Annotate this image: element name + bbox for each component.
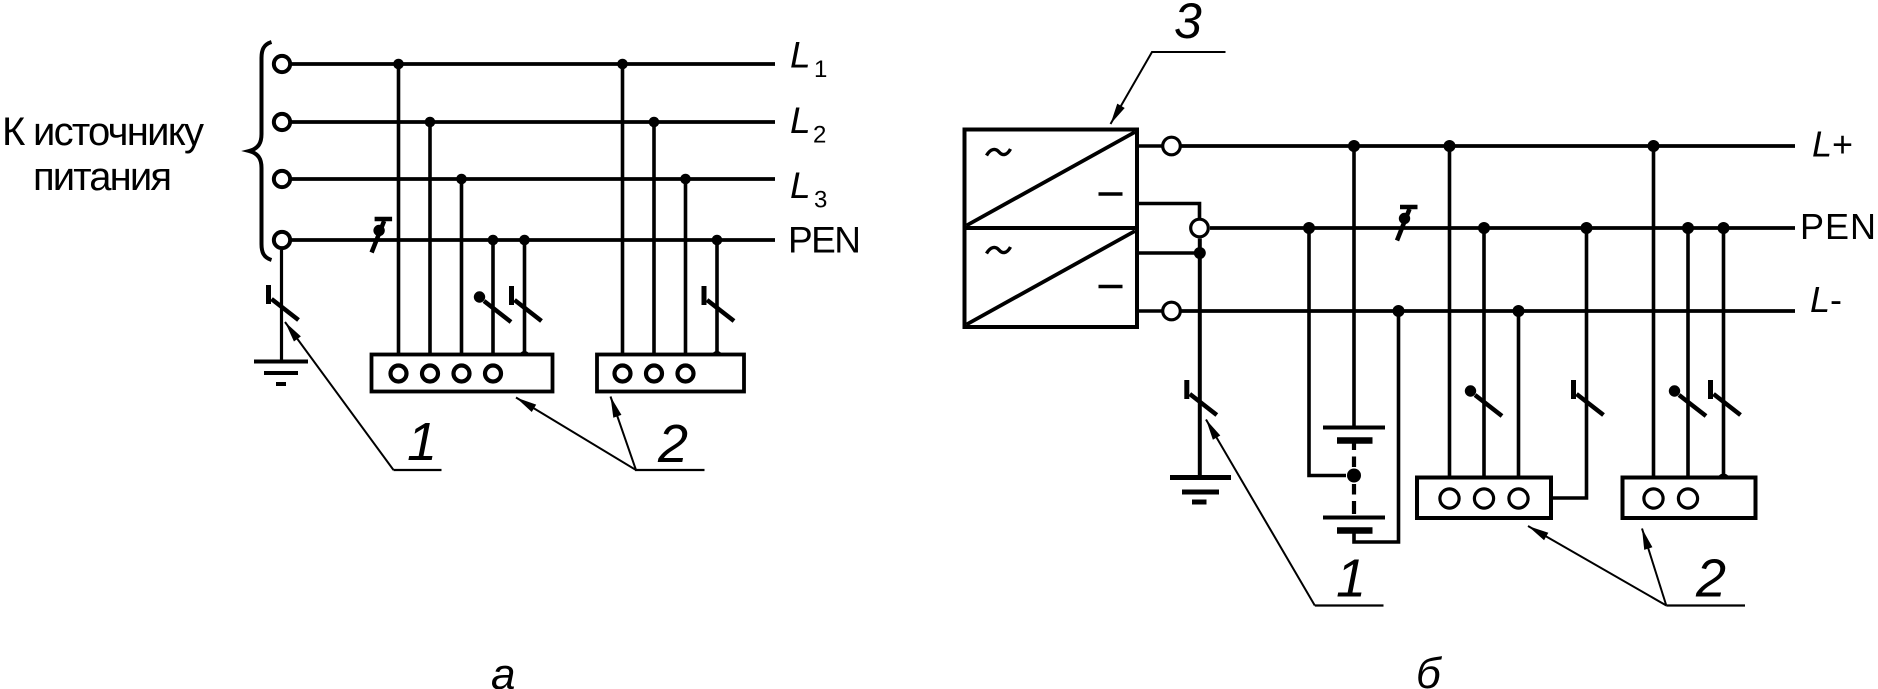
disconnect mark on PEN line (system a)	[372, 219, 393, 253]
svg-text:питания: питания	[33, 155, 172, 199]
callout 1 (system b): earthing electrode	[1206, 420, 1384, 609]
svg-text:PEN: PEN	[1800, 206, 1876, 247]
busbar box 2 (second consumer terminal strip, system a)	[597, 355, 744, 392]
svg-text:L-: L-	[1810, 279, 1842, 320]
label L2	[790, 100, 826, 149]
svg-text:1: 1	[814, 56, 827, 83]
svg-text:PEN: PEN	[788, 220, 861, 261]
svg-text:а: а	[491, 650, 515, 689]
wire: L- drop to box 3 circle 3, junction	[1513, 305, 1525, 489]
rectifier 2 diagonal	[967, 231, 1136, 325]
svg-text:1: 1	[1336, 549, 1366, 609]
wire: converter output to L- terminal	[1139, 302, 1180, 320]
disconnect mark on PEN line (system b)	[1397, 207, 1418, 241]
svg-text:3: 3	[1174, 0, 1202, 49]
ground (earth electrode 1, system b)	[1170, 478, 1231, 503]
net L1 (phase line 1, system a)	[274, 56, 775, 72]
busbar box 2 (first consumer terminal strip, system b)	[1417, 478, 1551, 519]
battery GB (storage battery, two cells with dashed middle)	[1323, 312, 1399, 542]
wire: converter midpoint elbow to PEN terminal	[1139, 204, 1208, 237]
label PEN (system a)	[788, 220, 861, 261]
callout 1 (system a): earthing electrode	[285, 322, 442, 472]
text: К источнику питания	[2, 110, 204, 199]
svg-text:3: 3	[814, 186, 827, 213]
svg-text:2: 2	[1695, 549, 1726, 609]
wire: converter output to L+ terminal	[1139, 137, 1180, 155]
rectifier 1 diagonal	[967, 132, 1136, 226]
svg-text:L: L	[790, 100, 811, 141]
wire: PEN drop to battery midpoint, junction at PEN	[1303, 222, 1346, 476]
wire: PEN drop to box 4 circle 2, junction, dot-slash disconnect mark	[1669, 222, 1706, 489]
rectifier 1 AC symbol ~	[987, 149, 1011, 156]
wire: PEN terminal to earth electrode 1, with bar-slash disconnect mark	[269, 250, 299, 362]
junction: battery negative to L-	[1393, 305, 1405, 317]
callout 2 (system a): terminal strips	[516, 397, 705, 475]
callout 2 (system b): terminal strips	[1528, 526, 1745, 609]
svg-text:L+: L+	[1812, 124, 1853, 165]
rectifier 2 AC symbol ~	[987, 247, 1011, 254]
wire: PEN drop to box 3 circle 2, junction, dot-slash disconnect mark	[1465, 222, 1502, 489]
net L2 (phase line 2, system a)	[274, 114, 775, 130]
svg-text:б: б	[1416, 649, 1443, 689]
svg-text:1: 1	[407, 412, 437, 472]
wire: PEN drop to first box (working neutral), with junction and dot-slash disconnect mark	[474, 235, 511, 365]
rectifier 1 DC symbol -	[1099, 192, 1123, 196]
label L1	[790, 35, 827, 84]
svg-text:К источнику: К источнику	[2, 110, 204, 154]
wire: converter lower midpoint to junction	[1139, 247, 1206, 259]
wire: L+ drop to battery positive, junction at L+	[1348, 140, 1360, 428]
wire: PEN drop to first box PE terminal, junctions both ends, bar-slash disconnect mark	[512, 235, 542, 362]
wire: L2 drop to second box, with junction	[649, 117, 660, 365]
wire: L1 drop to second box, with junction	[617, 59, 628, 365]
svg-text:2: 2	[657, 414, 688, 474]
wire: L3 drop to first box, with junction	[456, 174, 467, 365]
wire: L+ drop to box 3 circle 1, junction at L+	[1444, 140, 1456, 489]
wire: L2 drop to first box, with junction	[425, 117, 436, 365]
busbar box 2 (first consumer terminal strip, system a)	[372, 355, 553, 392]
converter unit 3 (two AC/DC rectifiers): outer box	[965, 130, 1138, 328]
wire: PEN drop to second box, junctions both ends, bar-slash disconnect mark	[704, 235, 734, 362]
wire: PEN drop to box 4 top edge (PE), junctions both ends, bar-slash disconnect mark	[1711, 222, 1741, 486]
callout 3: converter	[1111, 0, 1226, 124]
net PEN (system b)	[1210, 226, 1795, 230]
svg-text:L: L	[790, 35, 811, 76]
svg-text:2: 2	[813, 121, 826, 148]
svg-text:L: L	[790, 165, 811, 206]
wire: L+ drop to box 4 circle 1, junction	[1648, 140, 1660, 489]
wire: PEN drop to box 3 right side (PE), junction, bar-slash disconnect mark	[1552, 222, 1604, 498]
busbar box 2 (second consumer terminal strip, system b)	[1623, 478, 1756, 519]
wire: L3 drop to second box, with junction	[680, 174, 691, 365]
wire: L1 drop to busbar 2 (first box), with junction	[393, 59, 404, 365]
net L- (negative pole line)	[1182, 309, 1796, 313]
net L+ (positive pole line)	[1182, 144, 1796, 148]
rectifier 2 DC symbol -	[1099, 285, 1123, 289]
brace: to power source terminals	[249, 42, 272, 260]
label L3	[790, 165, 827, 214]
wire: PEN circle down to earth electrode, bar-slash disconnect mark	[1187, 239, 1217, 478]
net PEN (combined protective+neutral conductor, system a)	[274, 232, 775, 248]
net L3 (phase line 3, system a)	[274, 171, 775, 187]
ground (earth electrode 1, system a)	[254, 362, 308, 385]
